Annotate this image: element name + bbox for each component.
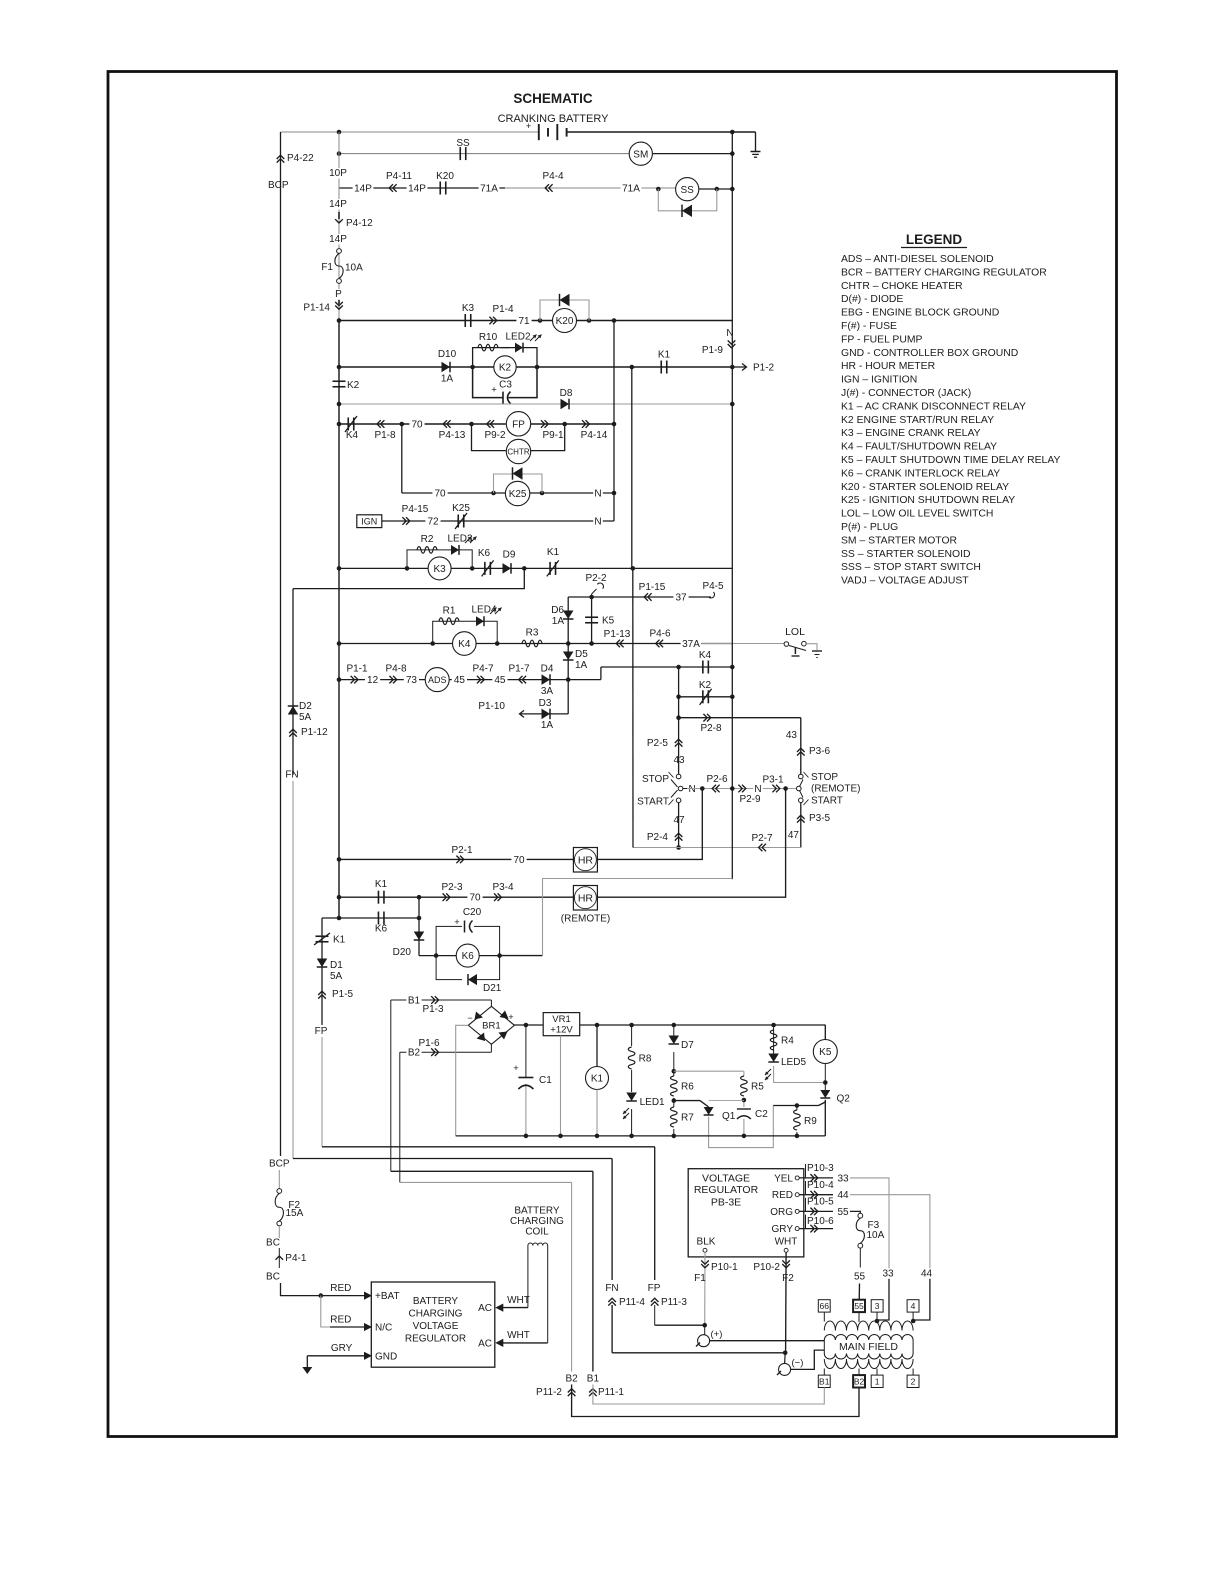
connector P1-3 <box>431 996 435 1004</box>
starter motor SM <box>629 142 652 165</box>
wire K20 bypass <box>540 300 589 321</box>
svg-text:K1: K1 <box>591 1074 604 1085</box>
svg-text:F(#) - FUSE: F(#) - FUSE <box>841 321 897 332</box>
starter solenoid SS <box>676 178 699 201</box>
LOL ground <box>806 644 817 650</box>
wire P2-2 riser <box>591 594 593 597</box>
wire K6 row <box>322 917 419 919</box>
connector P1-1 <box>351 676 355 684</box>
wire FN routing <box>293 1158 612 1160</box>
svg-text:14P: 14P <box>354 184 372 195</box>
svg-text:P1-2: P1-2 <box>753 363 775 374</box>
svg-text:55: 55 <box>854 1301 864 1311</box>
svg-text:P2-5: P2-5 <box>647 738 669 749</box>
wire bridge negative return <box>456 1025 469 1136</box>
fuse F3 10A <box>850 1211 860 1213</box>
svg-text:P3-1: P3-1 <box>762 775 784 786</box>
bus BCP vertical <box>280 132 282 1156</box>
wire K3 row <box>339 567 732 569</box>
transistor Q2 <box>820 1090 830 1098</box>
LED2 <box>515 343 523 353</box>
contact K3 <box>464 314 466 327</box>
svg-text:P2-9: P2-9 <box>739 794 761 805</box>
svg-text:SS – STARTER SOLENOID: SS – STARTER SOLENOID <box>841 549 971 560</box>
diode D6 branch <box>567 597 569 644</box>
wire P2-7 row <box>633 847 801 849</box>
relay K3 loop <box>407 550 472 569</box>
svg-text:C3: C3 <box>499 380 512 391</box>
wire IGN row <box>382 520 614 522</box>
svg-text:P2-6: P2-6 <box>706 774 728 785</box>
svg-text:N: N <box>689 784 696 795</box>
svg-text:B2: B2 <box>408 1048 421 1059</box>
node dots SS row <box>656 187 661 192</box>
svg-text:P(#) - PLUG: P(#) - PLUG <box>841 522 898 533</box>
svg-text:Q2: Q2 <box>837 1094 851 1105</box>
wire K20 row <box>339 320 553 322</box>
svg-text:SCHEMATIC: SCHEMATIC <box>513 91 592 106</box>
node 33 to terminal 3 <box>875 1319 880 1324</box>
fuse F2 15A column <box>278 1170 280 1189</box>
diode D4 3A <box>542 674 551 685</box>
svg-text:P1-3: P1-3 <box>422 1004 444 1015</box>
connector P1-12 <box>289 733 297 737</box>
contact K1 <box>377 891 379 904</box>
relay K1 branch <box>596 1025 598 1067</box>
main field winding bottom <box>824 1359 913 1369</box>
svg-text:SM: SM <box>633 149 648 160</box>
svg-text:K4: K4 <box>458 639 471 650</box>
svg-text:70: 70 <box>469 893 481 904</box>
connector P1-15 <box>648 593 652 601</box>
svg-text:D3: D3 <box>539 698 552 709</box>
svg-text:D5: D5 <box>575 649 588 660</box>
svg-text:73: 73 <box>406 675 418 686</box>
terminal box B1 <box>818 1375 830 1387</box>
svg-text:STOP: STOP <box>642 774 669 785</box>
connector P1-7 <box>522 676 526 684</box>
fuel pump FP <box>506 412 530 436</box>
wire K25 row <box>402 492 506 494</box>
wire B2 routing <box>399 1052 401 1182</box>
svg-text:P4-5: P4-5 <box>702 581 724 592</box>
svg-text:FP: FP <box>512 419 525 430</box>
svg-text:10A: 10A <box>867 1230 885 1241</box>
svg-text:12: 12 <box>367 675 379 686</box>
vertical N/P1-9 wire <box>731 132 733 789</box>
wire B1 row <box>391 999 492 1001</box>
wire short vertical x=678.6 <box>678 667 680 718</box>
LED4 <box>476 616 484 626</box>
resistor R2 <box>417 547 437 554</box>
contact K1 NC on FP column <box>316 935 329 937</box>
svg-text:37: 37 <box>675 593 687 604</box>
svg-text:RED: RED <box>772 1190 793 1201</box>
stop-start switch SSS column <box>678 718 680 774</box>
svg-text:R1: R1 <box>443 606 456 617</box>
node vertical-B top <box>630 365 635 370</box>
connector P3-4 <box>494 893 498 901</box>
wire K6 box to vertical <box>500 955 543 957</box>
terminal minus <box>784 1353 787 1364</box>
svg-text:P1-10: P1-10 <box>478 701 505 712</box>
svg-text:D8: D8 <box>560 388 573 399</box>
svg-text:B1: B1 <box>819 1376 830 1386</box>
relay K2 <box>494 356 516 378</box>
wire top battery row <box>281 131 539 133</box>
svg-text:K6 – CRANK INTERLOCK RELAY: K6 – CRANK INTERLOCK RELAY <box>841 468 1000 479</box>
voltage regulator PB-3E box <box>688 1169 804 1257</box>
svg-text:LED4: LED4 <box>471 605 496 616</box>
arrow P1-2 <box>732 366 746 368</box>
svg-text:START: START <box>811 796 843 807</box>
svg-text:C1: C1 <box>539 1075 552 1086</box>
svg-text:J(#) - CONNECTOR (JACK): J(#) - CONNECTOR (JACK) <box>841 388 971 399</box>
svg-text:K25: K25 <box>509 489 527 500</box>
svg-text:+: + <box>454 917 459 927</box>
svg-text:45: 45 <box>494 675 506 686</box>
svg-text:P3-6: P3-6 <box>809 746 831 757</box>
svg-text:K1 – AC CRANK DISCONNECT RELAY: K1 – AC CRANK DISCONNECT RELAY <box>841 401 1026 412</box>
contact K2 NC <box>702 690 704 703</box>
hour meter HR remote <box>573 886 597 911</box>
svg-text:P2-2: P2-2 <box>585 573 607 584</box>
terminal box 4 <box>907 1300 919 1312</box>
svg-text:P1-12: P1-12 <box>301 727 328 738</box>
svg-text:70: 70 <box>513 855 525 866</box>
voltage regulator VR1 +12V <box>543 1013 580 1036</box>
wire plus to main field <box>710 1340 825 1342</box>
svg-text:66: 66 <box>820 1301 830 1311</box>
svg-text:3A: 3A <box>541 686 554 697</box>
svg-text:LED2: LED2 <box>505 332 530 343</box>
connector P2-8 <box>703 714 707 722</box>
svg-text:K20 - STARTER SOLENOID RELAY: K20 - STARTER SOLENOID RELAY <box>841 482 1009 493</box>
svg-text:GND: GND <box>375 1351 397 1362</box>
svg-text:D6: D6 <box>551 605 564 616</box>
transistor Q1 <box>674 1100 700 1102</box>
svg-text:GRY: GRY <box>772 1224 794 1235</box>
contact K1 on K2 row <box>660 361 662 374</box>
svg-text:70: 70 <box>411 420 423 431</box>
svg-text:P2-4: P2-4 <box>647 832 669 843</box>
wire coil to AC1 <box>527 1246 529 1308</box>
connector P11-3 <box>651 1302 659 1306</box>
svg-text:P1-8: P1-8 <box>374 430 396 441</box>
svg-text:BC: BC <box>266 1238 280 1249</box>
svg-text:43: 43 <box>673 755 685 766</box>
connector P4-22 <box>277 159 285 163</box>
relay K2 box top branch <box>473 348 537 367</box>
svg-text:D20: D20 <box>393 947 412 958</box>
wire 14P row <box>339 187 505 189</box>
svg-text:P9-2: P9-2 <box>484 430 506 441</box>
svg-text:D1: D1 <box>330 960 343 971</box>
wire K25 riser <box>401 424 403 493</box>
wire HR row P2-1 <box>339 858 573 860</box>
wire FP to plus node <box>654 1305 656 1325</box>
svg-text:HR - HOUR METER: HR - HOUR METER <box>841 361 936 372</box>
svg-text:R8: R8 <box>639 1054 652 1065</box>
svg-text:F1: F1 <box>321 262 333 273</box>
resistor R3 <box>522 640 542 647</box>
contact K25 NC <box>457 515 459 528</box>
connector P1-6 <box>431 1048 435 1056</box>
svg-text:55: 55 <box>837 1207 849 1218</box>
battery charging voltage regulator box <box>371 1282 495 1367</box>
svg-text:+: + <box>508 1012 513 1022</box>
svg-text:D7: D7 <box>681 1040 694 1051</box>
node dot top-left <box>337 130 342 135</box>
svg-text:R7: R7 <box>681 1113 694 1124</box>
contact K20 <box>439 182 441 195</box>
svg-text:P11-3: P11-3 <box>661 1297 687 1308</box>
svg-text:K20: K20 <box>436 171 454 182</box>
wire to R5 <box>674 1070 744 1072</box>
wire BC to +BAT <box>281 1283 365 1296</box>
svg-text:P3-4: P3-4 <box>492 882 514 893</box>
svg-text:K3: K3 <box>462 303 475 314</box>
svg-text:FN: FN <box>285 770 298 781</box>
wire coil to AC2 <box>547 1246 549 1343</box>
wire B2 bottom route <box>572 1385 859 1417</box>
svg-text:BR1: BR1 <box>482 1021 500 1032</box>
svg-text:1A: 1A <box>552 616 565 627</box>
svg-text:CRANKING BATTERY: CRANKING BATTERY <box>498 113 609 125</box>
svg-text:AC: AC <box>478 1339 492 1350</box>
svg-text:P1-13: P1-13 <box>604 629 631 640</box>
diode D3 row <box>567 680 569 714</box>
svg-text:K6: K6 <box>462 951 475 962</box>
connector P3-5 <box>797 819 805 823</box>
svg-text:P1-1: P1-1 <box>346 664 368 675</box>
svg-text:P4-14: P4-14 <box>581 430 608 441</box>
bridge rectifier BR1 <box>468 1006 514 1044</box>
connector P4-4 <box>549 184 553 192</box>
svg-text:(REMOTE): (REMOTE) <box>811 784 860 795</box>
svg-text:ADS – ANTI-DIESEL SOLENOID: ADS – ANTI-DIESEL SOLENOID <box>841 254 994 265</box>
resistor R7 <box>668 1107 679 1129</box>
svg-text:K3: K3 <box>433 564 446 575</box>
switch SSS <box>676 774 681 779</box>
svg-text:D4: D4 <box>541 664 554 675</box>
svg-text:44: 44 <box>837 1190 849 1201</box>
svg-text:P4-12: P4-12 <box>346 218 373 229</box>
svg-text:+BAT: +BAT <box>375 1291 400 1302</box>
svg-text:P4-22: P4-22 <box>287 153 314 164</box>
svg-text:71A: 71A <box>480 184 498 195</box>
svg-text:CHTR – CHOKE HEATER: CHTR – CHOKE HEATER <box>841 281 963 292</box>
fuse F1 10A <box>337 249 342 254</box>
resistor R5 <box>743 1071 745 1136</box>
svg-text:(+): (+) <box>711 1329 723 1340</box>
svg-text:1A: 1A <box>575 660 588 671</box>
capacitor C2 <box>736 1107 751 1119</box>
svg-text:FP: FP <box>315 1026 328 1037</box>
svg-text:71A: 71A <box>622 184 640 195</box>
svg-text:P1-14: P1-14 <box>303 303 330 314</box>
connector P1-4 <box>489 317 493 325</box>
anti-diesel solenoid ADS <box>425 668 449 692</box>
connector P4-14 <box>582 420 586 428</box>
svg-text:BLK: BLK <box>697 1236 716 1247</box>
wire K4 row <box>339 643 732 645</box>
svg-text:F1: F1 <box>694 1273 706 1284</box>
contact K5 branch <box>591 597 593 644</box>
svg-text:P11-1: P11-1 <box>598 1387 624 1398</box>
svg-text:P10-1: P10-1 <box>711 1262 738 1273</box>
FN column lower <box>292 781 294 1159</box>
svg-text:K25: K25 <box>452 503 470 514</box>
svg-text:SS: SS <box>681 185 695 196</box>
svg-text:REGULATOR: REGULATOR <box>405 1334 466 1345</box>
svg-text:P10-3: P10-3 <box>807 1163 834 1174</box>
resistor R9 <box>796 1106 798 1136</box>
remote stop-start switch <box>799 774 804 779</box>
wire B2 row <box>400 1051 492 1053</box>
svg-text:37A: 37A <box>682 639 700 650</box>
svg-text:P4-13: P4-13 <box>439 430 466 441</box>
terminal box B2 <box>853 1375 865 1387</box>
contact K4 NC <box>347 418 349 431</box>
svg-text:D9: D9 <box>503 550 516 561</box>
svg-text:D21: D21 <box>483 983 502 994</box>
svg-text:47: 47 <box>673 815 685 826</box>
svg-text:45: 45 <box>454 675 466 686</box>
svg-text:+: + <box>513 1063 519 1074</box>
contact K2 on bus <box>333 380 346 382</box>
contact K1 NC on K3 row <box>549 562 551 575</box>
terminal plus <box>704 1325 706 1334</box>
diode D5 branch <box>567 644 569 680</box>
svg-text:N/C: N/C <box>375 1323 392 1334</box>
svg-text:SS: SS <box>456 138 470 149</box>
svg-text:D10: D10 <box>438 349 457 360</box>
svg-text:K6: K6 <box>478 548 491 559</box>
svg-text:RED: RED <box>330 1314 351 1325</box>
capacitor C20 <box>462 922 474 932</box>
wire 43 drop right <box>800 718 802 774</box>
diode D7 branch <box>673 1025 675 1136</box>
contact K6 NC <box>484 562 486 575</box>
diode D10 1A <box>442 362 451 373</box>
svg-text:GRY: GRY <box>331 1343 353 1354</box>
svg-text:STOP: STOP <box>811 772 838 783</box>
svg-text:33: 33 <box>882 1268 894 1279</box>
connector P4-11 <box>393 184 397 192</box>
svg-text:VOLTAGE: VOLTAGE <box>702 1172 750 1184</box>
svg-text:+: + <box>491 385 497 396</box>
vertical A wire <box>613 321 615 522</box>
diode D20 <box>414 932 425 941</box>
svg-text:LOL: LOL <box>785 626 805 638</box>
capacitor C3 branch <box>473 367 503 398</box>
connector P2-5 <box>675 743 683 747</box>
svg-text:R9: R9 <box>804 1116 817 1127</box>
wire SM row <box>339 153 629 155</box>
wire HR remote to P3-1 junction <box>597 789 785 898</box>
wire Q1 below rail loop <box>709 1106 774 1148</box>
main field exciter winding top <box>824 1321 913 1331</box>
svg-text:LOL – LOW OIL LEVEL SWITCH: LOL – LOW OIL LEVEL SWITCH <box>841 509 993 520</box>
diode K20 bypass <box>560 294 570 306</box>
svg-text:K4: K4 <box>699 650 712 661</box>
connector P4-12 <box>338 212 340 219</box>
svg-text:K25 - IGNITION SHUTDOWN RELAY: K25 - IGNITION SHUTDOWN RELAY <box>841 495 1015 506</box>
svg-text:P4-7: P4-7 <box>472 664 494 675</box>
wire K2 contact row <box>679 696 733 698</box>
wire ADS row <box>339 679 601 681</box>
svg-text:K20: K20 <box>556 316 574 327</box>
svg-text:K2 ENGINE START/RUN RELAY: K2 ENGINE START/RUN RELAY <box>841 415 994 426</box>
connector P2-6 <box>716 785 720 793</box>
svg-text:P2-1: P2-1 <box>451 845 473 856</box>
svg-text:4: 4 <box>911 1301 916 1311</box>
connector P4-13 <box>447 420 451 428</box>
battery charging coil <box>528 1243 548 1245</box>
svg-text:CHARGING: CHARGING <box>510 1216 564 1227</box>
svg-text:−: − <box>467 1013 472 1023</box>
diode D8 <box>561 399 570 410</box>
svg-text:BCP: BCP <box>269 1159 290 1170</box>
svg-text:B2: B2 <box>854 1376 865 1386</box>
connector P4-6 <box>659 640 663 648</box>
resistor R1 <box>439 618 459 625</box>
svg-text:P4-4: P4-4 <box>542 171 564 182</box>
svg-text:B2: B2 <box>565 1374 578 1385</box>
svg-text:F2: F2 <box>782 1273 794 1284</box>
svg-text:3: 3 <box>875 1301 880 1311</box>
svg-text:HR: HR <box>578 855 594 867</box>
svg-text:R5: R5 <box>751 1082 764 1093</box>
svg-text:P1-4: P1-4 <box>492 304 514 315</box>
svg-text:P1-6: P1-6 <box>418 1038 440 1049</box>
wire riser K1-K6 <box>418 897 420 955</box>
contact K6 <box>377 912 379 925</box>
node dot top-right <box>730 130 735 135</box>
terminal box 3 <box>871 1300 883 1312</box>
svg-text:33: 33 <box>837 1173 849 1184</box>
svg-text:VADJ – VOLTAGE ADJUST: VADJ – VOLTAGE ADJUST <box>841 576 969 587</box>
svg-text:REGULATOR: REGULATOR <box>694 1184 759 1196</box>
wire RED to N/C <box>321 1296 365 1327</box>
svg-text:K6: K6 <box>375 924 388 935</box>
svg-text:(REMOTE): (REMOTE) <box>561 914 610 925</box>
wire VR1 bottom stub <box>560 1036 562 1136</box>
wire K25 bypass <box>494 474 543 493</box>
wire K4 contact row <box>601 666 732 668</box>
connector P11-4 <box>608 1302 616 1306</box>
svg-text:K3 – ENGINE CRANK RELAY: K3 – ENGINE CRANK RELAY <box>841 428 981 439</box>
svg-text:SSS – STOP START SWITCH: SSS – STOP START SWITCH <box>841 562 981 573</box>
svg-text:P1-9: P1-9 <box>702 345 724 356</box>
svg-text:ORG: ORG <box>770 1207 793 1218</box>
svg-text:P1-7: P1-7 <box>508 664 530 675</box>
connector P4-7 <box>477 676 481 684</box>
svg-text:1A: 1A <box>441 374 454 385</box>
connector P1-13 <box>620 640 624 648</box>
wire to K6 box <box>419 955 436 957</box>
svg-text:CHTR: CHTR <box>507 447 529 456</box>
svg-text:PB-3E: PB-3E <box>711 1196 741 1208</box>
diode SS bypass <box>682 205 692 217</box>
ground GRY <box>306 1356 308 1367</box>
terminal box 1 <box>871 1375 883 1387</box>
svg-text:N: N <box>594 517 601 528</box>
svg-text:C2: C2 <box>755 1109 768 1120</box>
connector P9-1 <box>541 420 545 428</box>
svg-text:Q1: Q1 <box>722 1111 736 1122</box>
